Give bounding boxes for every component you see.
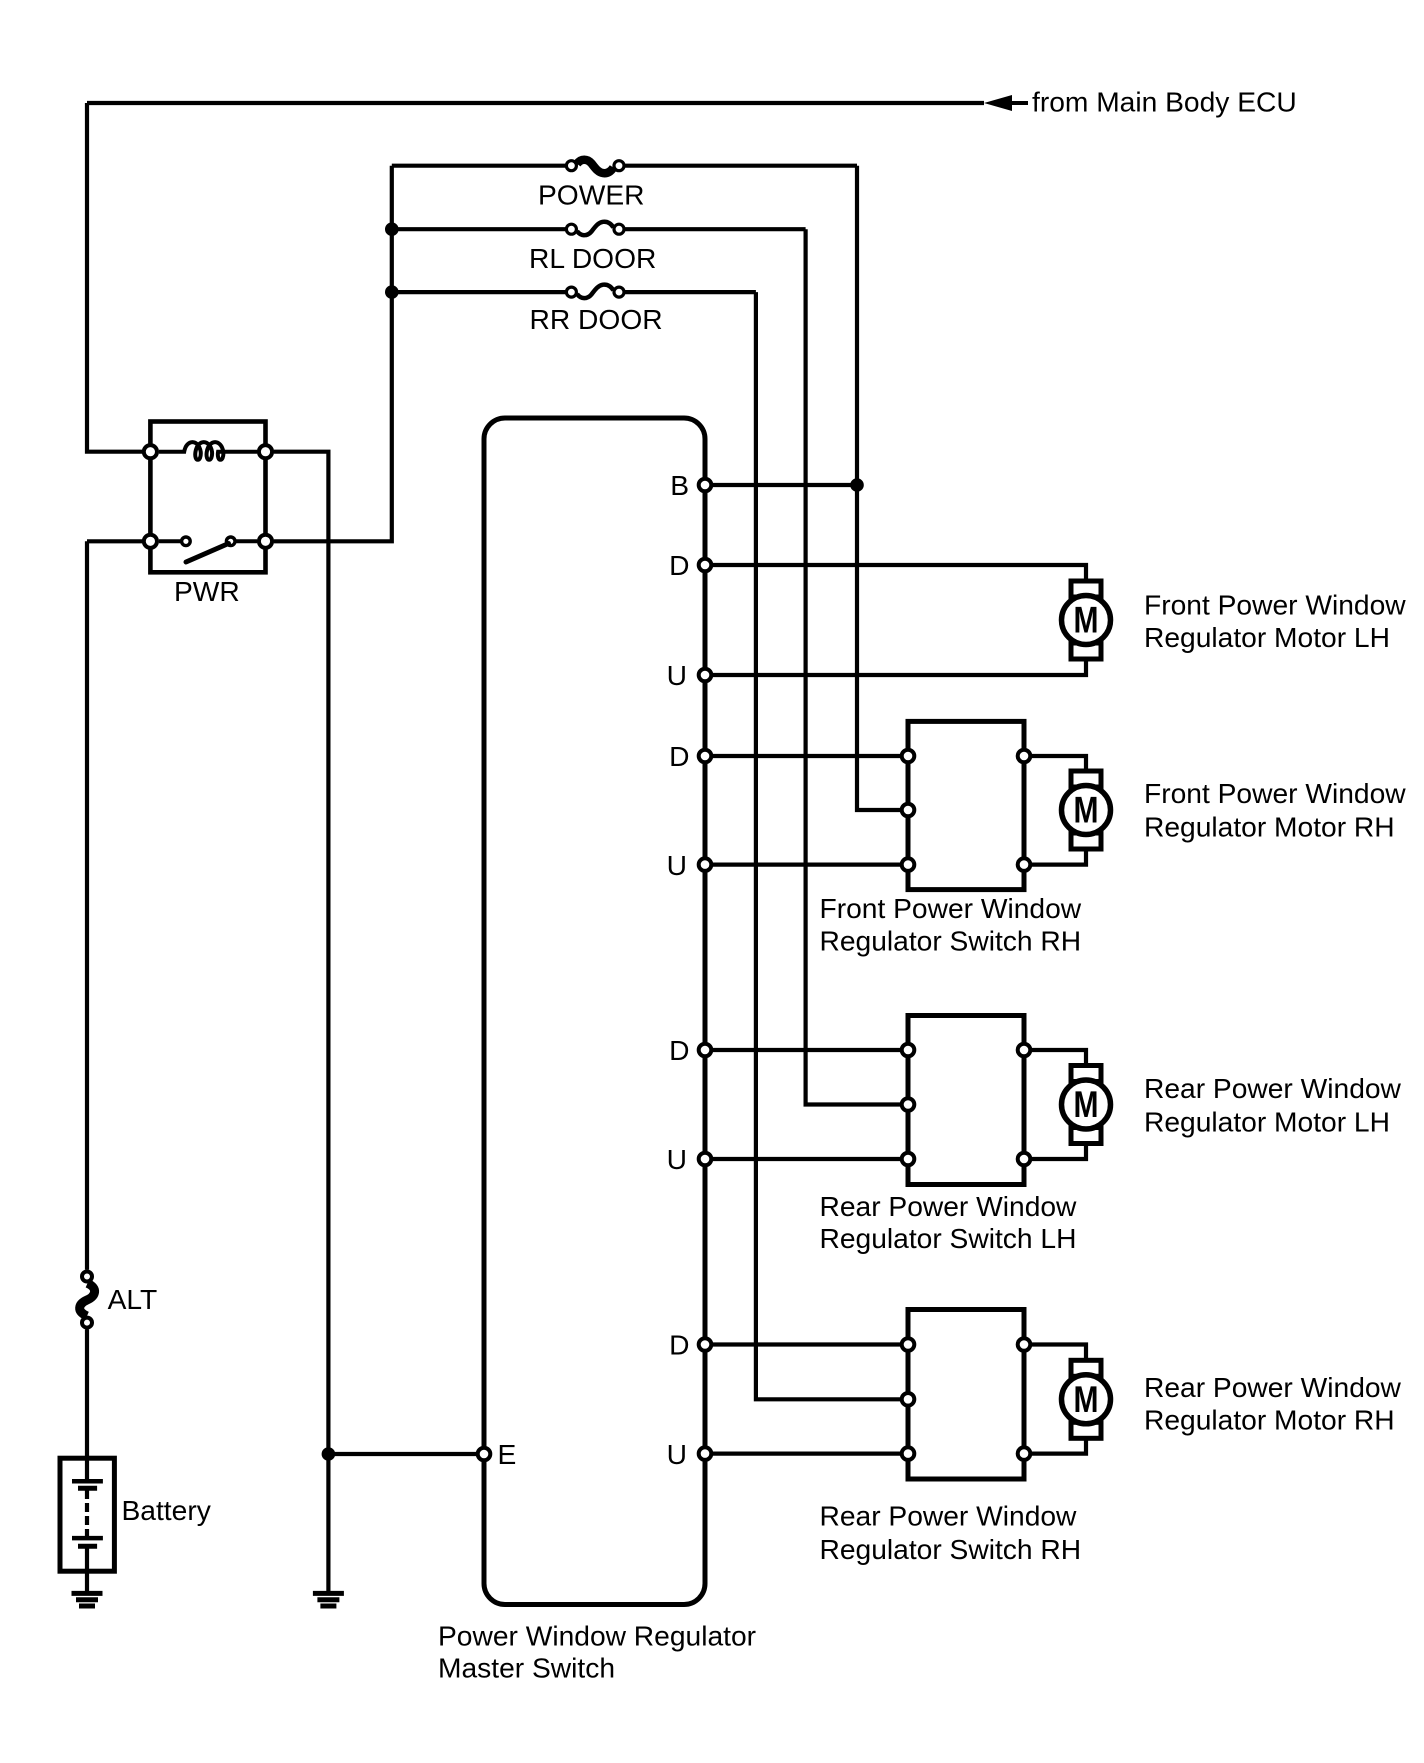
svg-text:POWER: POWER <box>538 178 645 210</box>
svg-text:M: M <box>1074 790 1099 831</box>
svg-text:Regulator Motor LH: Regulator Motor LH <box>1144 1105 1390 1137</box>
svg-text:Rear Power Window: Rear Power Window <box>820 1190 1078 1222</box>
svg-text:RL DOOR: RL DOOR <box>529 242 656 274</box>
svg-text:Regulator Switch LH: Regulator Switch LH <box>820 1222 1077 1254</box>
svg-text:U: U <box>667 849 687 881</box>
svg-text:Regulator Motor RH: Regulator Motor RH <box>1144 1403 1395 1435</box>
svg-text:D: D <box>669 1329 689 1361</box>
svg-text:B: B <box>670 469 689 501</box>
svg-text:D: D <box>669 549 689 581</box>
svg-text:U: U <box>667 1143 687 1175</box>
svg-text:PWR: PWR <box>174 575 240 607</box>
svg-text:D: D <box>669 740 689 772</box>
svg-text:Front Power Window: Front Power Window <box>820 892 1082 924</box>
svg-text:Front Power Window: Front Power Window <box>1144 777 1406 809</box>
svg-text:Regulator Switch RH: Regulator Switch RH <box>820 1533 1082 1565</box>
svg-text:Master Switch: Master Switch <box>438 1651 615 1683</box>
svg-text:D: D <box>669 1034 689 1066</box>
svg-text:Rear Power Window: Rear Power Window <box>820 1500 1078 1532</box>
svg-text:E: E <box>498 1438 517 1470</box>
svg-text:from Main Body ECU: from Main Body ECU <box>1032 86 1297 118</box>
svg-text:Rear Power Window: Rear Power Window <box>1144 1072 1402 1104</box>
svg-text:ALT: ALT <box>108 1283 158 1315</box>
svg-text:U: U <box>667 659 687 691</box>
svg-text:Battery: Battery <box>122 1494 212 1526</box>
svg-text:Rear Power Window: Rear Power Window <box>1144 1371 1402 1403</box>
svg-text:Regulator Motor LH: Regulator Motor LH <box>1144 621 1390 653</box>
svg-text:M: M <box>1074 1379 1099 1420</box>
svg-text:Regulator Motor RH: Regulator Motor RH <box>1144 810 1395 842</box>
svg-text:M: M <box>1074 600 1099 641</box>
svg-text:Front Power Window: Front Power Window <box>1144 588 1406 620</box>
svg-text:Regulator Switch RH: Regulator Switch RH <box>820 924 1082 956</box>
svg-text:RR DOOR: RR DOOR <box>530 303 663 335</box>
svg-text:M: M <box>1074 1084 1099 1125</box>
svg-text:Power Window Regulator: Power Window Regulator <box>438 1619 756 1651</box>
svg-text:U: U <box>667 1438 687 1470</box>
